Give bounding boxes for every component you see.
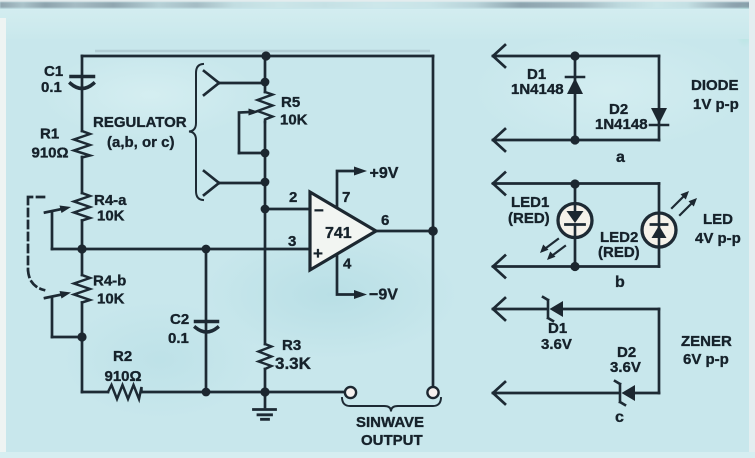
svg-text:+: + [313,244,323,263]
svg-text:DIODE: DIODE [691,77,739,94]
svg-text:+9V: +9V [370,165,399,182]
svg-text:10K: 10K [97,208,125,225]
svg-text:4V p-p: 4V p-p [695,230,741,247]
svg-text:b: b [615,274,625,291]
svg-text:0.1: 0.1 [168,330,189,347]
svg-text:R3: R3 [282,337,301,354]
svg-text:1N4148: 1N4148 [511,81,564,98]
svg-text:D1: D1 [548,320,567,337]
svg-text:−9V: −9V [369,287,398,304]
svg-text:LED1: LED1 [511,194,549,211]
svg-text:REGULATOR: REGULATOR [93,114,187,131]
svg-text:910Ω: 910Ω [105,368,142,385]
svg-text:(a,b, or c): (a,b, or c) [107,134,175,151]
svg-text:SINWAVE: SINWAVE [356,414,424,431]
svg-text:(RED): (RED) [598,244,640,261]
svg-text:−: − [314,201,324,220]
svg-text:10K: 10K [97,291,125,308]
svg-text:741: 741 [325,225,352,242]
svg-text:2: 2 [289,189,297,206]
svg-text:1N4148: 1N4148 [595,116,648,133]
svg-text:3: 3 [288,233,296,250]
svg-text:ZENER: ZENER [681,333,732,350]
svg-text:R2: R2 [113,348,132,365]
svg-text:0.1: 0.1 [41,79,62,96]
svg-text:LED: LED [703,211,733,228]
svg-text:(RED): (RED) [508,210,550,227]
svg-text:3.6V: 3.6V [610,359,641,376]
svg-text:1V p-p: 1V p-p [693,96,739,113]
svg-text:R4-b: R4-b [93,273,126,290]
svg-text:R4-a: R4-a [94,192,127,209]
svg-text:C1: C1 [44,63,63,80]
svg-text:3.6V: 3.6V [541,336,572,353]
svg-text:10K: 10K [280,112,308,129]
svg-text:7: 7 [342,189,350,206]
svg-text:3.3K: 3.3K [275,354,312,373]
svg-text:a: a [616,149,625,166]
svg-text:C2: C2 [170,311,189,328]
svg-text:OUTPUT: OUTPUT [361,432,423,449]
svg-text:6: 6 [381,212,389,229]
svg-text:R1: R1 [40,126,59,143]
svg-text:c: c [615,409,624,426]
svg-text:4: 4 [343,256,352,273]
svg-text:910Ω: 910Ω [32,145,69,162]
svg-text:6V p-p: 6V p-p [683,351,729,368]
svg-text:R5: R5 [281,94,300,111]
